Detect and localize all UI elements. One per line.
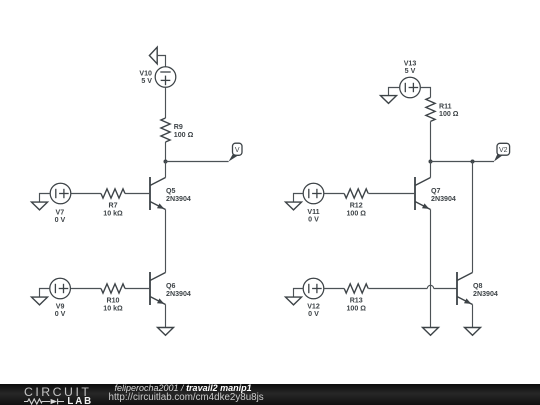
svg-text:100 Ω: 100 Ω bbox=[439, 110, 459, 118]
ground (top of left circuit, pointing left) bbox=[149, 47, 157, 64]
node junction at R9/Q5 collector bbox=[164, 160, 168, 164]
svg-text:100 Ω: 100 Ω bbox=[346, 210, 366, 218]
voltage source V13 5 V bbox=[400, 59, 421, 97]
svg-text:R10: R10 bbox=[106, 296, 119, 304]
svg-text:Q8: Q8 bbox=[473, 282, 483, 290]
svg-text:R9: R9 bbox=[174, 123, 183, 131]
wire bbox=[165, 87, 167, 118]
ground (below V7) bbox=[32, 202, 48, 210]
CircuitLab logo bbox=[24, 384, 104, 405]
voltage source V11 0 V bbox=[303, 183, 324, 223]
svg-text:2N3904: 2N3904 bbox=[166, 290, 191, 298]
resistor R13 100 Ω bbox=[344, 284, 368, 313]
svg-text:Q6: Q6 bbox=[166, 282, 176, 290]
wire bbox=[165, 305, 167, 328]
wire bbox=[70, 288, 101, 290]
wire bbox=[324, 288, 344, 290]
wire bbox=[472, 162, 474, 273]
svg-text:10 kΩ: 10 kΩ bbox=[103, 305, 123, 313]
wire bbox=[40, 194, 51, 203]
wire bbox=[431, 161, 495, 163]
svg-text:0 V: 0 V bbox=[55, 216, 66, 224]
ground (below Q8 emitter) bbox=[465, 328, 481, 336]
svg-text:0 V: 0 V bbox=[308, 310, 319, 318]
wire bbox=[125, 288, 150, 290]
svg-text:5 V: 5 V bbox=[141, 77, 152, 85]
svg-text:100 Ω: 100 Ω bbox=[174, 131, 194, 139]
svg-text:2N3904: 2N3904 bbox=[166, 195, 191, 203]
resistor R10 10 kΩ bbox=[101, 284, 125, 313]
wire bbox=[389, 88, 400, 96]
transistor Q7 2N3904 bbox=[415, 177, 456, 210]
wire bbox=[472, 305, 474, 328]
svg-text:Q5: Q5 bbox=[166, 187, 176, 195]
svg-text:10 kΩ: 10 kΩ bbox=[103, 210, 123, 218]
ground (below Q7 emitter) bbox=[423, 328, 439, 336]
ground (below Q6 emitter) bbox=[158, 328, 174, 336]
node flag V bbox=[229, 143, 242, 161]
wire bbox=[430, 162, 432, 178]
wire bbox=[420, 88, 430, 98]
wire bbox=[165, 162, 167, 178]
wire bbox=[368, 193, 415, 195]
resistor R12 100 Ω bbox=[344, 189, 368, 218]
svg-text:V: V bbox=[235, 147, 240, 154]
wire bbox=[71, 193, 101, 195]
svg-text:R12: R12 bbox=[350, 201, 363, 209]
transistor Q6 2N3904 bbox=[150, 272, 191, 305]
wire bbox=[324, 193, 344, 195]
svg-text:100 Ω: 100 Ω bbox=[346, 305, 366, 313]
svg-text:5 V: 5 V bbox=[405, 67, 416, 75]
wire bbox=[165, 142, 167, 162]
wire bbox=[434, 288, 457, 290]
transistor Q8 2N3904 bbox=[457, 272, 498, 305]
wire bbox=[368, 288, 427, 290]
node flag V2 bbox=[494, 143, 510, 161]
transistor Q5 2N3904 bbox=[150, 177, 191, 210]
svg-text:R7: R7 bbox=[108, 201, 117, 209]
svg-text:2N3904: 2N3904 bbox=[473, 290, 498, 298]
wire bbox=[40, 289, 50, 298]
svg-text:V2: V2 bbox=[499, 147, 508, 154]
svg-text:0 V: 0 V bbox=[308, 215, 319, 223]
wire bbox=[165, 210, 167, 273]
resistor R7 10 kΩ bbox=[101, 189, 125, 218]
svg-text:R13: R13 bbox=[350, 296, 363, 304]
resistor R9 100 Ω bbox=[161, 118, 194, 142]
svg-text:Q7: Q7 bbox=[431, 187, 441, 195]
ground (below V9) bbox=[32, 297, 48, 305]
node junction at Q8 collector riser bbox=[471, 160, 475, 164]
ground (below V11) bbox=[286, 202, 302, 210]
wire bbox=[430, 121, 432, 161]
voltage source V10 5 V bbox=[139, 67, 175, 88]
wire hop over Q7 emitter wire bbox=[427, 285, 433, 288]
wire bbox=[157, 56, 165, 67]
voltage source V12 0 V bbox=[303, 278, 324, 318]
svg-text:2N3904: 2N3904 bbox=[431, 195, 456, 203]
wire bbox=[294, 194, 304, 203]
svg-text:R11: R11 bbox=[439, 102, 452, 110]
wire bbox=[430, 210, 432, 328]
resistor R11 100 Ω bbox=[426, 97, 459, 121]
voltage source V9 0 V bbox=[50, 278, 71, 318]
wire bbox=[125, 193, 150, 195]
node junction at R11/Q7 collector bbox=[429, 160, 433, 164]
svg-text:0 V: 0 V bbox=[55, 310, 66, 318]
wire bbox=[166, 161, 229, 163]
ground (below V12) bbox=[286, 297, 302, 305]
wire bbox=[294, 289, 304, 298]
voltage source V7 0 V bbox=[50, 183, 71, 224]
ground (left of V13) bbox=[381, 96, 397, 104]
